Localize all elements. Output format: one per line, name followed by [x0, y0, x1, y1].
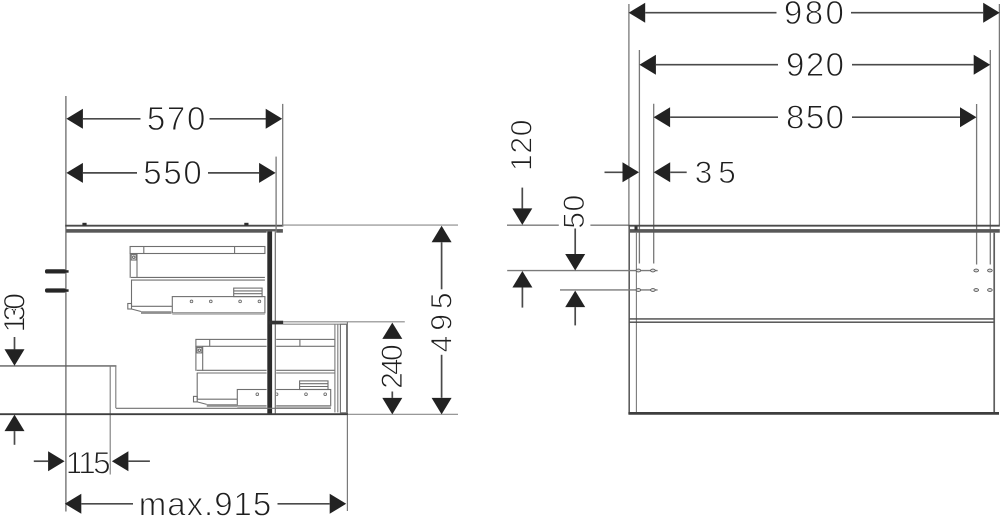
upper drawer gray base band [172, 313, 265, 315]
divider end blob (side view) [269, 321, 283, 325]
svg-text:550: 550 [143, 154, 202, 191]
wall mounting screw lower (side view) [45, 288, 69, 292]
dimension 115 [34, 445, 150, 481]
lower drawer slide dots [256, 393, 327, 396]
recess top line (130 ref) [0, 365, 116, 367]
top extension to 495 dim [283, 224, 458, 226]
svg-text:115: 115 [66, 445, 111, 481]
extension line 920 right [989, 50, 991, 265]
dimension 920 [639, 46, 990, 83]
dimension max.915 [65, 486, 346, 518]
lower drawer gray base band [237, 406, 331, 408]
svg-text:495: 495 [426, 292, 459, 352]
dimension 120 (rotated) [506, 120, 539, 308]
dimension 550 [66, 154, 275, 191]
countertop top line (side view) [65, 225, 283, 227]
svg-text:570: 570 [147, 100, 206, 137]
lower drawer dark base band [207, 404, 238, 407]
upper drawer group (side view) [128, 247, 265, 313]
countertop front band (side view) [66, 229, 283, 233]
mounting holes right pair row 1 [974, 269, 992, 272]
reference line C (second hole row) [560, 289, 658, 291]
dimension 495 (rotated) [426, 226, 459, 415]
lower drawer group (side view) [194, 339, 335, 405]
upper drawer front panel white backing [267, 231, 277, 414]
dimension 570 [66, 100, 282, 137]
countertop top line (front view) [628, 225, 999, 227]
cabinet body right edge [993, 233, 995, 414]
svg-text:850: 850 [786, 98, 844, 135]
screw mark left on countertop [82, 223, 86, 226]
dimension 130 (rotated) [0, 293, 32, 445]
svg-text:980: 980 [784, 0, 844, 31]
extension line 920 left [638, 50, 640, 264]
svg-text:max.915: max.915 [139, 486, 272, 518]
cabinet bottom line (side view) [0, 413, 348, 415]
svg-text:240: 240 [376, 344, 409, 389]
mounting holes left pair row 2 [636, 289, 655, 292]
screw blob on countertop (front view) [635, 226, 638, 230]
recess bottom line [116, 407, 331, 409]
dimension 240 (rotated) [376, 323, 409, 415]
svg-text:130: 130 [0, 293, 32, 333]
countertop front band (front view) [630, 229, 1000, 233]
divider lines (side view) [283, 321, 405, 323]
dimension 50 (rotated) [558, 195, 591, 326]
lower drawer front panel [340, 324, 346, 413]
svg-text:920: 920 [786, 46, 844, 83]
extension line 850 right [976, 104, 978, 265]
dimension 35 [605, 154, 736, 190]
cabinet back edge + extension line (side view) [65, 96, 67, 512]
wall mounting screw upper (side view) [45, 269, 69, 273]
extension line 980 left [628, 4, 630, 226]
reference line B (first hole row) [507, 270, 657, 272]
mounting holes right pair row 2 [974, 289, 992, 292]
extension line 850 left [653, 104, 655, 264]
reference line A (countertop level, left extension) [507, 224, 559, 226]
extension line 550 right [275, 157, 277, 232]
screw mark right on countertop [244, 223, 248, 226]
cabinet body left edge (front view) [628, 226, 630, 414]
svg-text:120: 120 [506, 120, 539, 172]
cabinet body left inner line [635, 233, 637, 413]
upper drawer front face line [274, 232, 276, 414]
svg-text:50: 50 [558, 195, 591, 229]
cabinet bottom line (front view) [628, 412, 999, 415]
bottom extension to 495 dim [348, 413, 458, 415]
upper drawer slide dots [190, 300, 261, 303]
dimension 850 [654, 98, 977, 135]
extension line 980 right [998, 4, 1000, 226]
drawer divider lines (front view) [630, 318, 994, 320]
lower drawer front inner lines [334, 324, 336, 412]
recess corner vertical lines [109, 366, 111, 475]
max.915 right extension line [346, 322, 348, 511]
dimension 980 [629, 0, 1000, 31]
mounting holes left pair row 1 [636, 269, 655, 272]
extension line 570 right [282, 104, 284, 226]
upper drawer dark base band [141, 311, 171, 314]
upper drawer front panel dark band [267, 231, 272, 414]
